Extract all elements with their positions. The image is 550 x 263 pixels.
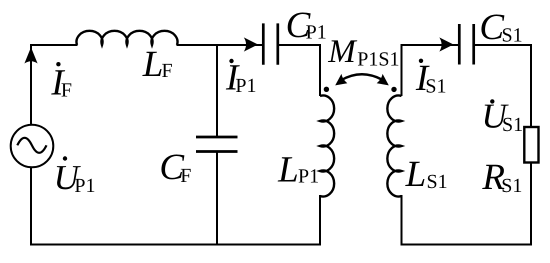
wire: C_P1 to top-right corner of primary, down to coil [278, 45, 320, 96]
wire: L_S1 top vertical [401, 45, 403, 96]
mutual coupling arrowhead right [377, 74, 389, 86]
wire: top middle segment to C_P1 [177, 44, 264, 46]
svg-text:S1: S1 [427, 171, 448, 193]
arrow I_F (up) [24, 47, 37, 63]
svg-text:P1S1: P1S1 [357, 48, 399, 70]
svg-text:P1: P1 [74, 175, 95, 197]
svg-text:L: L [277, 149, 299, 190]
label C_F [159, 147, 191, 188]
polarity dot left (L_P1) [324, 87, 329, 92]
capacitor C_F plates [196, 137, 238, 152]
capacitor C_P1 plates [263, 23, 278, 64]
label L_P1 [277, 149, 319, 190]
svg-text:P1: P1 [235, 75, 256, 97]
svg-text:S1: S1 [502, 24, 523, 46]
arrow I_P1 (right) [244, 37, 258, 51]
AC source sine wave [17, 138, 46, 153]
label R_S1 [481, 157, 522, 198]
label C_P1 [286, 5, 327, 46]
wire: left vertical (source branch) [30, 45, 32, 245]
svg-text:S1: S1 [502, 114, 523, 136]
svg-text:M: M [327, 34, 357, 70]
wire: secondary top rail to C_S1 [401, 44, 460, 46]
label L_F [142, 44, 173, 85]
label I_P1 [225, 57, 257, 98]
resistor R_S1 box [524, 127, 538, 163]
polarity dot right (L_S1) [391, 87, 396, 92]
inductor L_P1 (4 loops, bulge right) [320, 95, 334, 196]
wire: bottom rail of secondary loop [401, 244, 533, 246]
wire: top left segment [30, 44, 78, 46]
arrow I_S1 (right) [439, 37, 453, 51]
wire: C_F branch vertical bottom [216, 152, 218, 246]
wire: L_P1 bottom to bottom rail [319, 195, 321, 245]
svg-text:L: L [142, 44, 164, 85]
inductor L_F (4 humps) [77, 31, 178, 45]
label M_P1S1 [327, 34, 399, 70]
label C_S1 [479, 7, 522, 48]
svg-text:F: F [61, 80, 72, 102]
inductor L_S1 (4 loops, bulge left) [387, 96, 401, 197]
svg-text:F: F [162, 60, 173, 82]
label U_P1 [54, 156, 96, 197]
wire: bottom rail of primary loop [30, 244, 321, 246]
label U_S1 [482, 96, 524, 136]
svg-text:P1: P1 [298, 165, 319, 187]
label L_S1 [405, 154, 448, 195]
wire: resistor to bottom rail [530, 163, 532, 246]
mutual coupling arrowhead left [335, 74, 347, 86]
svg-text:F: F [180, 165, 191, 187]
label I_S1 [415, 58, 447, 99]
wire: C_S1 to top-right corner, down to resistor [474, 45, 531, 127]
AC source U_P1 circle [11, 125, 54, 168]
capacitor C_S1 plates [459, 24, 473, 65]
mutual coupling arc M_P1S1 [341, 74, 384, 80]
wire: L_S1 bottom vertical [401, 195, 403, 245]
svg-text:P1: P1 [306, 22, 327, 44]
wire: C_F branch vertical top [216, 45, 218, 137]
svg-text:S1: S1 [425, 75, 446, 97]
svg-text:L: L [405, 154, 427, 195]
svg-text:S1: S1 [501, 175, 522, 197]
label I_F [50, 62, 72, 104]
